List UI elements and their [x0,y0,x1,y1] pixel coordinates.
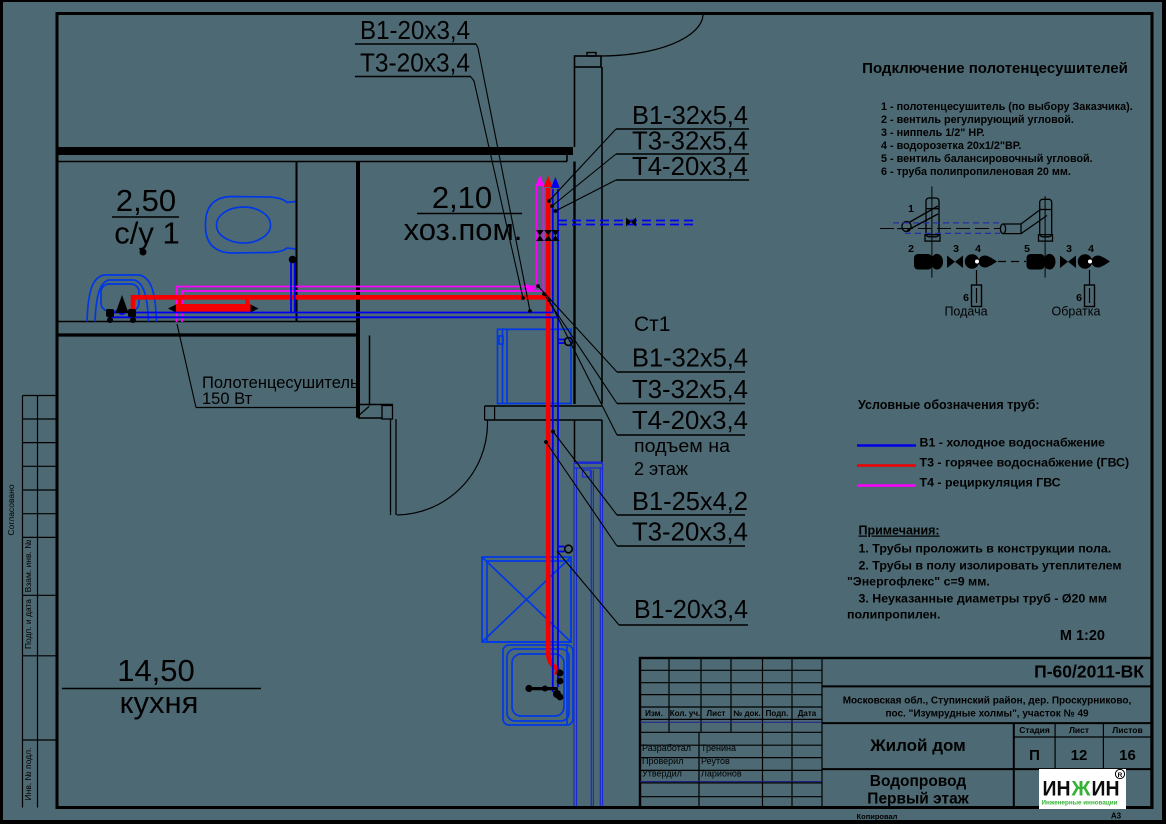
svg-text:В1-25х4,2: В1-25х4,2 [632,486,748,516]
svg-text:Дата: Дата [798,709,817,718]
svg-text:6: 6 [963,292,969,304]
svg-text:Ларионов: Ларионов [701,769,742,779]
svg-text:Лист: Лист [707,709,726,718]
svg-text:Разработал: Разработал [642,743,691,753]
svg-text:Кол. уч.: Кол. уч. [670,709,700,718]
svg-text:кухня: кухня [120,685,199,720]
svg-text:5: 5 [1024,243,1030,255]
svg-text:Жилой дом: Жилой дом [869,736,965,755]
svg-text:Тренина: Тренина [701,743,736,753]
svg-text:2 этаж: 2 этаж [634,458,689,479]
svg-text:5 - вентиль балансировочный уг: 5 - вентиль балансировочный угловой. [881,153,1093,165]
svg-text:ИН: ИН [1043,778,1071,801]
svg-text:М 1:20: М 1:20 [1060,628,1105,644]
svg-text:3 - ниппель 1/2" НР.: 3 - ниппель 1/2" НР. [881,127,985,139]
svg-text:Листов: Листов [1112,725,1142,735]
svg-text:16: 16 [1119,747,1136,764]
svg-text:2: 2 [908,243,914,255]
svg-text:№ док.: № док. [733,709,760,718]
svg-text:Подключение полотенцесушителей: Подключение полотенцесушителей [862,60,1128,77]
svg-text:3. Неуказанные диаметры труб -: 3. Неуказанные диаметры труб - Ø20 мм [859,592,1108,606]
svg-text:6 - труба полипропиленовая 20: 6 - труба полипропиленовая 20 мм. [881,166,1071,178]
svg-text:Т3-20х3,4: Т3-20х3,4 [632,517,748,547]
svg-text:2 - вентиль регулирующий углов: 2 - вентиль регулирующий угловой. [881,114,1074,126]
svg-text:Утвердил: Утвердил [642,769,682,779]
svg-text:4 - водорозетка 20х1/2"ВР.: 4 - водорозетка 20х1/2"ВР. [881,140,1021,152]
svg-text:Подача: Подача [944,305,987,319]
svg-text:3: 3 [1066,243,1072,255]
svg-text:Подп.: Подп. [766,709,789,718]
svg-text:П-60/2011-ВК: П-60/2011-ВК [1034,662,1144,682]
svg-text:1: 1 [908,203,914,215]
svg-text:Лист: Лист [1069,725,1089,735]
svg-text:R: R [1118,772,1123,779]
svg-text:6: 6 [1076,292,1082,304]
svg-text:Водопровод: Водопровод [870,773,967,790]
svg-text:Изм.: Изм. [645,709,663,718]
svg-text:Копировал: Копировал [857,812,898,821]
svg-text:Примечания:: Примечания: [859,524,940,538]
svg-text:Т4-20х3,4: Т4-20х3,4 [632,405,748,435]
svg-text:1 - полотенцесушитель (по выбо: 1 - полотенцесушитель (по выбору Заказчи… [881,101,1133,113]
svg-text:Т4 - рециркуляция ГВС: Т4 - рециркуляция ГВС [920,476,1061,490]
svg-text:2. Трубы в полу изолировать ут: 2. Трубы в полу изолировать утеплителем [859,559,1122,573]
svg-text:"Энергофлекс" с=9 мм.: "Энергофлекс" с=9 мм. [847,575,990,589]
svg-text:1. Трубы проложить в конструкц: 1. Трубы проложить в конструкции пола. [859,542,1112,556]
svg-text:Согласовано: Согласовано [6,484,16,535]
svg-text:Московская обл., Ступинский ра: Московская обл., Ступинский район, дер. … [843,695,1132,707]
svg-text:Инв. № подл.: Инв. № подл. [23,748,33,801]
svg-text:Условные обозначения труб:: Условные обозначения труб: [858,398,1040,412]
svg-text:Реутов: Реутов [701,756,730,766]
svg-text:Проверил: Проверил [642,756,683,766]
svg-text:4: 4 [975,243,981,255]
svg-text:Ж: Ж [1070,778,1091,801]
svg-text:3: 3 [953,243,959,255]
svg-text:Т3 - горячее водоснабжение (ГВ: Т3 - горячее водоснабжение (ГВС) [920,456,1130,470]
svg-text:Т3-20х3,4: Т3-20х3,4 [360,48,470,78]
svg-text:2,10: 2,10 [432,180,492,215]
svg-text:Т4-20х3,4: Т4-20х3,4 [632,151,748,181]
svg-text:Первый этаж: Первый этаж [867,791,969,808]
svg-text:А3: А3 [1111,812,1122,821]
svg-text:Взам. инв. №: Взам. инв. № [23,540,33,593]
svg-text:В1-20х3,4: В1-20х3,4 [634,594,748,624]
svg-text:подъем на: подъем на [634,435,731,456]
svg-text:Подп. и дата: Подп. и дата [23,599,33,649]
svg-text:4: 4 [1088,243,1094,255]
svg-text:Т3-32х5,4: Т3-32х5,4 [632,374,748,404]
svg-text:пос. "Изумрудные холмы", участ: пос. "Изумрудные холмы", участок № 49 [885,709,1089,720]
svg-text:В1-32х5,4: В1-32х5,4 [632,343,748,373]
svg-text:В1 - холодное водоснабжение: В1 - холодное водоснабжение [920,436,1106,450]
svg-text:ИН: ИН [1092,778,1120,801]
svg-text:12: 12 [1071,747,1088,764]
svg-text:Инженерные инновации: Инженерные инновации [1041,800,1117,807]
svg-text:хоз.пом.: хоз.пом. [404,212,523,247]
svg-text:В1-20х3,4: В1-20х3,4 [360,15,470,45]
svg-text:Ст1: Ст1 [634,313,670,336]
svg-text:2,50: 2,50 [116,183,176,218]
svg-text:150 Вт: 150 Вт [202,390,253,408]
svg-text:с/у 1: с/у 1 [114,216,179,251]
svg-text:Стадия: Стадия [1019,725,1050,735]
svg-text:Обратка: Обратка [1052,305,1101,319]
svg-text:14,50: 14,50 [117,653,195,688]
svg-text:полипропилен.: полипропилен. [847,608,940,622]
svg-text:П: П [1029,747,1040,764]
